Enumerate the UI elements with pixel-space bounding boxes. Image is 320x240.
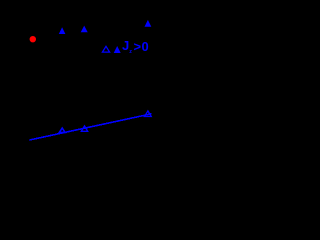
open triangle marker on line T7 bbox=[81, 126, 87, 131]
svg-text:>0: >0 bbox=[134, 39, 150, 54]
open triangle marker at end of line T8 bbox=[145, 111, 152, 117]
trend line bbox=[30, 114, 152, 140]
svg-text:J: J bbox=[122, 38, 129, 53]
filled triangle marker T5 bbox=[114, 46, 121, 53]
filled triangle marker T3 bbox=[145, 20, 152, 27]
red circle marker bbox=[30, 36, 36, 42]
open triangle marker on line T6 bbox=[59, 128, 65, 132]
filled triangle marker T1 bbox=[59, 27, 66, 34]
filled triangle marker T2 bbox=[81, 26, 88, 33]
open triangle marker T4 bbox=[102, 46, 109, 52]
svg-text:z: z bbox=[129, 49, 132, 55]
